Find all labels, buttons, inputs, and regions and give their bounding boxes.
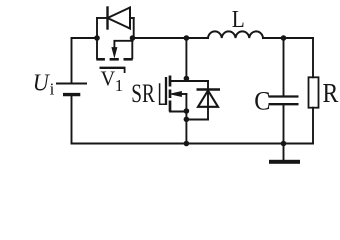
wire D anode branch horizontal [186,119,208,121]
node junction dot V1 drain on top rail [94,35,100,41]
wire SR source vertical to bottom rail [185,112,187,144]
node junction dot SR source on bottom rail [184,141,190,147]
battery Ui negative plate [63,93,80,96]
transistor V1 drain stub [96,38,98,58]
wire C branch upper [283,38,285,96]
svg-text:SR: SR [131,79,155,108]
transistor SR channel contact bottom (source) [169,101,172,112]
transistor V1 channel contact left [96,58,105,61]
transistor SR gate bar [165,77,167,105]
wire bottom rail [72,143,314,145]
diode D (freewheel) cathode bar [197,88,221,90]
svg-text:R: R [323,78,339,108]
ground [269,160,300,164]
wire left branch upper (Ui + to top rail) [71,38,73,84]
wire top rail middle segment [133,37,209,39]
transistor V1 source stub [131,38,133,58]
diode VD1 cathode bar [106,8,108,29]
node junction dot D anode branch [184,117,190,123]
svg-text:V: V [101,66,116,90]
battery Ui positive plate [56,82,87,84]
wire C branch lower [283,105,285,143]
svg-text:1: 1 [115,76,124,95]
transistor SR channel contact top (drain) [169,76,172,87]
wire D axis vertical [207,81,209,120]
wire switch-node horizontal (drain lead and D cathode branch) [170,80,208,82]
node junction dot SR branch on top rail [184,35,190,41]
wire SR body-to-source vertical [185,94,187,112]
node junction dot V1 source on top rail [130,35,136,41]
transistor SR channel contact middle (body) [169,90,172,99]
svg-text:U: U [33,70,51,96]
transistor V1 body lead [114,41,132,48]
diode VD1 (antiparallel with V1): left leg [96,18,98,38]
diode VD1 triangle [108,8,131,29]
node junction dot ground on bottom rail [281,141,287,147]
node junction dot SR source lead [184,108,190,114]
wire SR source lead [170,111,186,113]
capacitor C bottom plate [269,103,299,105]
diode VD1 cathode lead [97,17,108,19]
node junction dot switch node (SR drain / D cathode) [184,76,190,82]
wire ground stub [283,144,285,160]
transistor V1 channel contact right [124,58,133,61]
transistor V1 channel contact middle [110,58,119,61]
wire right branch upper (rail to R) [312,38,314,77]
capacitor C top plate [269,95,299,97]
wire right branch lower (R to bottom rail) [312,108,314,144]
resistor R box [309,77,319,107]
transistor V1 body arrow head [112,48,117,58]
diode VD1 right leg [133,18,135,37]
transistor V1 gate line (overbar of label) [100,67,126,69]
transistor SR body arrow head [170,92,181,97]
svg-text:C: C [254,87,270,116]
diode D triangle [198,91,218,107]
inductor L winding (4 humps) [208,31,263,38]
svg-text:L: L [232,7,245,33]
wire SR drain vertical from top rail [185,38,187,81]
svg-text:i: i [50,80,55,99]
transistor V1 gate line end tick [124,68,126,73]
transistor SR body lead [181,93,187,95]
diode VD1 anode lead [130,17,134,19]
wire top rail right segment [263,37,313,39]
wire top rail left segment [72,37,98,39]
node junction dot filter node on top rail [281,35,287,41]
transistor SR gate lead J-line [160,84,165,104]
wire left branch lower (Ui - to bottom rail) [71,96,73,144]
